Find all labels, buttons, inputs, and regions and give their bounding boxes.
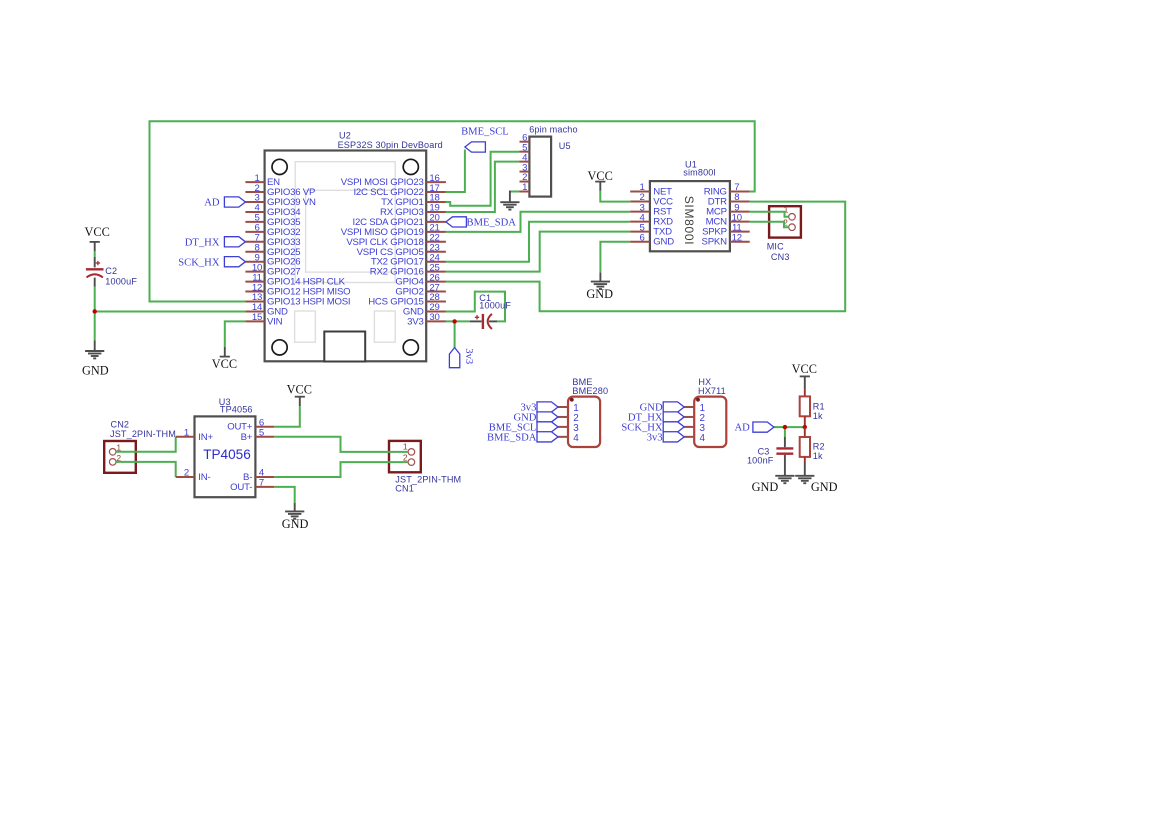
power VCC at OUT+ — [287, 382, 312, 406]
ground — [85, 351, 104, 358]
svg-text:VIN: VIN — [267, 316, 283, 327]
pin 15 U2 VIN — [245, 312, 282, 327]
wire node to 3v3 label — [454, 321, 456, 347]
svg-text:6: 6 — [639, 232, 644, 243]
wire GPIO19 to RST — [446, 212, 630, 232]
svg-text:VCC: VCC — [792, 362, 817, 376]
wire B- to CN1 pin2 — [274, 462, 408, 477]
svg-text:IN+: IN+ — [198, 432, 213, 443]
pin 29 U2 GND — [403, 302, 446, 317]
pin 19 U2 RX GPIO3 — [380, 203, 446, 218]
pin 9 U2 GPIO26 — [245, 252, 300, 267]
pin 25 U2 RX2 GPIO16 — [370, 262, 446, 277]
resistor R1 1k — [800, 390, 825, 428]
wire U5 pin1 to ground — [510, 191, 520, 193]
ground at C2 — [94, 340, 96, 351]
pin 3 U1 RST — [630, 202, 672, 217]
wire MCN to CN3 pin2 — [750, 222, 789, 228]
pin 28 U2 HCS GPIO15 — [368, 292, 446, 307]
svg-text:1k: 1k — [813, 451, 823, 461]
svg-text:GND: GND — [752, 480, 779, 494]
pin 4 HX 3v3 — [684, 433, 705, 444]
ground at R2 — [804, 463, 806, 476]
svg-text:30: 30 — [429, 312, 439, 323]
pin 3 HX SCK_HX — [684, 423, 705, 434]
pin 5 U2 GPIO35 — [245, 213, 300, 228]
label AD at GPIO39 — [204, 197, 245, 209]
svg-text:GND: GND — [282, 517, 309, 531]
pin 1 BME 3v3 — [558, 403, 579, 414]
svg-text:12: 12 — [732, 232, 742, 243]
pin 3 U5 — [520, 162, 530, 173]
pin 2 BME GND — [558, 413, 579, 424]
wire C2 top — [94, 251, 96, 257]
svg-text:1: 1 — [184, 428, 189, 439]
svg-text:MIC: MIC — [767, 242, 784, 252]
ic U3 TP4056 — [195, 397, 256, 497]
pin 2 U1 VCC — [630, 192, 673, 207]
svg-text:DT_HX: DT_HX — [185, 237, 220, 248]
node 3v3 junction — [452, 319, 456, 323]
pin 8 U1 DTR — [708, 192, 750, 207]
connector CN2 JST_2PIN-THM — [104, 419, 176, 473]
pin 9 U1 MCP — [706, 202, 750, 217]
pin 6 U2 GPIO32 — [245, 223, 300, 238]
pin 20 U2 I2C SDA GPIO21 — [353, 213, 446, 228]
pin 8 U2 GPIO25 — [245, 242, 300, 257]
svg-text:SPKN: SPKN — [702, 237, 728, 248]
svg-text:AD: AD — [734, 423, 750, 434]
ground — [500, 202, 519, 209]
pin 4 U3 B- — [243, 468, 274, 483]
wire 3V3 pin30 to C1 — [446, 320, 470, 322]
pin 10 U2 GPIO27 — [245, 262, 300, 277]
pin 18 U2 TX GPIO1 — [381, 193, 446, 208]
svg-text:BME_SDA: BME_SDA — [487, 433, 537, 444]
pin 2 U2 GPIO36 VP — [245, 183, 315, 198]
pin 6 U1 GND — [630, 232, 674, 247]
svg-text:VCC: VCC — [212, 357, 237, 371]
ground at U1 — [599, 272, 601, 281]
wire C2 bottom to GND net — [94, 287, 96, 341]
power VCC at C2 — [85, 225, 110, 251]
svg-text:SIM800I: SIM800I — [682, 196, 696, 246]
wire GPIO16 to TXD — [446, 232, 630, 272]
pin 16 U2 VSPI MOSI GPIO23 — [341, 173, 446, 188]
label BME_SCL at BME pin 3 — [489, 422, 558, 434]
pin 27 U2 GPIO2 — [395, 282, 446, 297]
svg-text:100nF: 100nF — [747, 456, 774, 466]
node GND junction — [93, 309, 97, 313]
ic U1 sim800l — [650, 160, 730, 252]
wire CN2 pin2 to IN- — [116, 462, 176, 477]
connector HX HX711 — [694, 377, 726, 447]
wire TX GPIO1 to U5 pin5 — [446, 152, 520, 206]
ground — [591, 282, 610, 289]
wire U1 pin6 to ground — [600, 242, 630, 273]
wire AD divider node — [774, 426, 805, 428]
label AD at divider — [734, 422, 773, 434]
svg-text:2: 2 — [403, 453, 408, 463]
svg-text:4: 4 — [573, 433, 579, 444]
svg-text:TP4056: TP4056 — [203, 447, 251, 462]
ground — [775, 476, 794, 483]
ic U2 ESP32S 30pin DevBoard — [265, 131, 443, 362]
connector BME BME280 — [568, 377, 608, 447]
svg-text:VCC: VCC — [287, 382, 312, 396]
svg-text:6pin macho: 6pin macho — [529, 125, 578, 135]
svg-text:GND: GND — [586, 287, 613, 301]
svg-text:U5: U5 — [559, 141, 571, 151]
wire node to GND pin14 — [95, 310, 246, 312]
wire MCP to CN3 pin1 — [750, 212, 789, 217]
label BME_SDA at GPIO21 — [446, 217, 516, 229]
svg-text:5: 5 — [259, 428, 264, 439]
pin 22 U2 VSPI CLK GPIO18 — [346, 233, 446, 248]
label SCK_HX at HX pin 3 — [621, 422, 684, 434]
wire GPIO17 to RXD — [446, 222, 630, 262]
pin 4 U5 — [520, 152, 530, 163]
pin 2 U3 IN- — [176, 468, 211, 483]
wire GPIO13 to RING big loop — [150, 121, 755, 301]
pin 3 BME BME_SCL — [558, 423, 579, 434]
connector CN1 JST_2PIN-THM — [389, 441, 461, 494]
capacitor C2 1000uF — [86, 257, 137, 287]
label BME_SCL top — [461, 127, 509, 152]
wire VIN pin15 to VCC — [225, 321, 246, 347]
pin 12 U2 GPIO12 HSPI MISO — [245, 282, 350, 297]
svg-text:1: 1 — [403, 441, 408, 451]
ground — [285, 511, 304, 518]
svg-text:3v3: 3v3 — [647, 433, 663, 444]
svg-text:BME280: BME280 — [572, 386, 608, 396]
pin 23 U2 VSPI CS GPIO5 — [357, 242, 446, 257]
pin 12 U1 SPKN — [702, 232, 750, 247]
pin 17 U2 I2C SCL GPIO22 — [353, 183, 445, 198]
power VCC at U1 — [588, 169, 613, 191]
label GND at BME pin 2 — [513, 412, 558, 424]
label BME_SDA at BME pin 4 — [487, 432, 558, 444]
pin 7 U2 GPIO33 — [245, 233, 300, 248]
svg-text:1000uF: 1000uF — [105, 277, 137, 287]
pin 7 U3 OUT- — [230, 478, 274, 493]
pin 13 U2 GPIO13 HSPI MOSI — [245, 292, 350, 307]
wire B+ to CN1 pin1 — [274, 437, 408, 452]
wire GND pin29 arch over C1 — [446, 292, 505, 322]
node AD junction 2 — [803, 425, 807, 429]
pin 7 U1 RING — [704, 182, 750, 197]
svg-text:3v3: 3v3 — [463, 348, 474, 364]
pin 1 U1 NET — [630, 182, 672, 197]
pin 11 U1 SPKP — [702, 222, 750, 237]
svg-text:JST_2PIN-THM: JST_2PIN-THM — [110, 429, 176, 439]
pin 4 U2 GPIO34 — [245, 203, 301, 218]
svg-text:HX711: HX711 — [698, 386, 726, 396]
svg-text:CN1: CN1 — [395, 483, 414, 493]
pin 10 U1 MCN — [706, 212, 750, 227]
svg-text:B+: B+ — [241, 432, 253, 443]
label GND at HX pin 1 — [640, 402, 685, 414]
pin 1 U3 IN+ — [176, 428, 214, 443]
svg-text:VCC: VCC — [85, 225, 110, 239]
wire GPIO4 to DTR — [446, 202, 845, 312]
svg-text:1000uF: 1000uF — [479, 300, 511, 310]
pin 1 U2 EN — [245, 173, 280, 188]
connector CN3 MIC — [767, 205, 801, 263]
pin 5 U3 B+ — [241, 428, 275, 443]
label 3v3 below C1 node — [449, 348, 474, 368]
pin 2 HX DT_HX — [684, 413, 705, 424]
pin 3 U2 GPIO39 VN — [245, 193, 316, 208]
pin 6 U3 OUT+ — [227, 417, 274, 432]
label DT_HX at HX pin 2 — [628, 412, 684, 424]
label SCK_HX at GPIO26 — [178, 257, 245, 269]
svg-text:4: 4 — [700, 433, 706, 444]
pin 5 U5 — [520, 142, 530, 153]
power VCC at R1 — [792, 362, 817, 390]
pin 2 U5 — [520, 172, 530, 183]
svg-text:1: 1 — [522, 182, 527, 193]
svg-text:C2: C2 — [105, 266, 117, 276]
capacitor C1 1000uF — [470, 293, 511, 329]
svg-text:AD: AD — [204, 198, 220, 209]
svg-text:ESP32S 30pin DevBoard: ESP32S 30pin DevBoard — [338, 140, 443, 150]
svg-text:GND: GND — [82, 363, 109, 377]
svg-text:15: 15 — [252, 312, 262, 323]
pin 11 U2 GPIO14 HSPI CLK — [245, 272, 345, 287]
pin 6 U5 — [520, 132, 530, 143]
svg-text:1k: 1k — [813, 411, 823, 421]
pin 4 BME BME_SDA — [558, 433, 579, 444]
pin 5 U1 TXD — [630, 222, 672, 237]
pin 21 U2 VSPI MISO GPIO19 — [341, 223, 446, 238]
svg-text:BME_SDA: BME_SDA — [467, 218, 517, 229]
label 3v3 at BME pin 1 — [521, 402, 558, 414]
pin 30 U2 3V3 — [407, 312, 446, 327]
wire VCC to U1 pin2 — [600, 190, 630, 202]
svg-text:GND: GND — [653, 237, 674, 248]
svg-text:CN2: CN2 — [111, 419, 130, 429]
svg-text:SCK_HX: SCK_HX — [178, 257, 220, 268]
svg-text:CN3: CN3 — [771, 252, 790, 262]
svg-text:GND: GND — [811, 480, 838, 494]
pin 26 U2 GPIO4 — [395, 272, 446, 287]
resistor R2 1k — [800, 427, 825, 462]
svg-text:BME_SCL: BME_SCL — [461, 127, 509, 138]
svg-text:TP4056: TP4056 — [220, 405, 253, 415]
connector U5 6pin macho — [529, 125, 578, 197]
wire RX GPIO3 to U5 pin4 — [446, 162, 520, 212]
pin 14 U2 GND — [245, 302, 288, 317]
power VCC at VIN — [212, 347, 237, 371]
pin 1 HX GND — [684, 403, 705, 414]
svg-text:sim800l: sim800l — [683, 168, 715, 178]
pin 1 U5 — [520, 182, 530, 193]
pin 24 U2 TX2 GPIO17 — [371, 252, 446, 267]
svg-text:7: 7 — [259, 478, 264, 489]
label DT_HX at GPIO33 — [185, 237, 246, 249]
node AD junction 1 — [783, 425, 787, 429]
svg-text:2: 2 — [184, 468, 189, 479]
wire GPIO22 to BME_SCL label — [446, 150, 465, 193]
pin 4 U1 RXD — [630, 212, 673, 227]
ground at OUT- — [294, 503, 296, 512]
label 3v3 at HX pin 4 — [647, 432, 684, 444]
svg-text:OUT-: OUT- — [230, 482, 252, 493]
svg-text:3V3: 3V3 — [407, 316, 423, 327]
ground — [795, 476, 814, 483]
wire OUT- to ground — [274, 487, 295, 503]
capacitor C3 100nF — [747, 437, 793, 476]
wire CN2 pin1 to IN+ — [116, 437, 176, 452]
wire OUT+ to VCC — [274, 406, 300, 427]
svg-text:IN-: IN- — [198, 472, 210, 483]
